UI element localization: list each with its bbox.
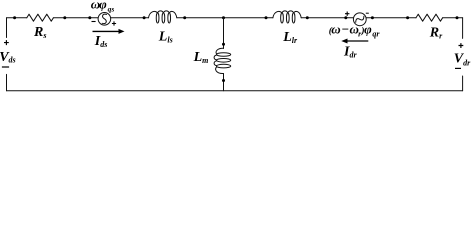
wire rotor source to Rr — [366, 17, 416, 19]
dependent source (w-wr)phi_qr — [353, 13, 366, 26]
svg-text:Rr: Rr — [429, 26, 443, 41]
node dot above Lm — [222, 43, 225, 46]
node dot before Lls — [143, 16, 146, 19]
label minus Vdr — [455, 67, 461, 69]
wire Lls to junction to Llr — [177, 17, 273, 19]
node dot below Lm — [222, 79, 225, 82]
svg-text:Llr: Llr — [282, 30, 298, 45]
wire bottom rail — [7, 90, 463, 92]
label plus Vds — [4, 40, 9, 45]
label plus right of source — [112, 21, 116, 25]
node dot before rotor source — [344, 16, 347, 19]
svg-text:Vds: Vds — [0, 50, 16, 65]
node dot before Llr — [265, 16, 268, 19]
resistor Rr — [416, 14, 443, 21]
svg-text:Idr: Idr — [343, 45, 357, 60]
wire left vertical upper — [6, 18, 8, 38]
node dot after Lls — [183, 16, 186, 19]
inductor Llr — [273, 11, 301, 23]
wire source to Lls — [111, 17, 149, 19]
wire magnetizing branch upper — [223, 18, 225, 49]
node dot before right corner — [456, 16, 459, 19]
label plus Vdr — [459, 43, 464, 48]
svg-text:Rs: Rs — [33, 25, 46, 40]
svg-text:ωφqs: ωφqs — [91, 0, 115, 14]
wire top-left segment — [7, 17, 27, 19]
resistor Rs — [27, 14, 54, 21]
inductor Lls — [149, 11, 177, 23]
node stator input dot — [13, 16, 16, 19]
node dot after Rs — [63, 16, 66, 19]
svg-text:(ω−ωr)φqr: (ω−ωr)φqr — [329, 22, 381, 39]
wire magnetizing branch lower — [223, 74, 225, 91]
wire right vertical lower — [462, 76, 464, 91]
node dot after Llr — [306, 16, 309, 19]
svg-text:Lm: Lm — [193, 50, 209, 65]
node dot after rotor source — [371, 16, 374, 19]
node dot before source — [88, 16, 91, 19]
wire Rs to source — [53, 17, 98, 19]
label plus left of rotor source — [345, 12, 349, 16]
wire Llr to rotor source — [301, 17, 353, 19]
node dot before Rr — [406, 16, 409, 19]
svg-text:Lls: Lls — [158, 30, 173, 45]
wire Rr to right corner — [443, 17, 463, 19]
label minus Vds — [2, 66, 9, 68]
arrow Ids — [93, 29, 125, 34]
wire left vertical lower — [6, 74, 8, 90]
wire right vertical upper — [462, 18, 464, 39]
svg-text:Vdr: Vdr — [454, 52, 471, 68]
dependent source wphi_qs — [98, 12, 111, 25]
inductor Lm — [214, 48, 231, 73]
node top of magnetizing branch — [222, 16, 225, 19]
label minus left of source — [92, 21, 96, 23]
svg-text:Ids: Ids — [94, 34, 108, 49]
label minus right of rotor source — [366, 12, 369, 14]
arrow Idr — [341, 39, 368, 44]
